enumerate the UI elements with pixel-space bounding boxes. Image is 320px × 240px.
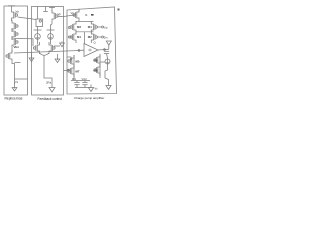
svg-text:M1: M1 (77, 35, 81, 39)
svg-text:M3: M3 (77, 25, 81, 29)
svg-text:Ib: Ib (85, 13, 88, 17)
svg-text:Vp: Vp (71, 11, 75, 15)
svg-text:Charge pump amplifier: Charge pump amplifier (74, 96, 104, 100)
svg-text:Dn: Dn (104, 36, 108, 40)
svg-text:Vz: Vz (95, 87, 99, 91)
svg-text:W1: W1 (72, 77, 76, 81)
svg-text:M6: M6 (94, 59, 98, 63)
svg-text:Feedback control: Feedback control (38, 97, 63, 101)
svg-text:Replica bias: Replica bias (5, 97, 23, 101)
svg-text:M2: M2 (88, 35, 92, 39)
svg-text:Vp: Vp (58, 12, 62, 16)
svg-text:2Ra: 2Ra (46, 81, 52, 85)
svg-text:Vs: Vs (15, 80, 19, 84)
svg-text:Vctrl: Vctrl (82, 77, 88, 81)
svg-text:M4: M4 (88, 25, 92, 29)
svg-text:M8: M8 (94, 69, 98, 73)
svg-text:M7: M7 (76, 70, 80, 74)
svg-text:Up: Up (104, 26, 108, 30)
svg-text:M5: M5 (76, 60, 80, 64)
svg-text:Vp: Vp (16, 10, 20, 14)
svg-text:Q: Q (94, 41, 97, 45)
svg-text:Vbn: Vbn (14, 45, 20, 49)
